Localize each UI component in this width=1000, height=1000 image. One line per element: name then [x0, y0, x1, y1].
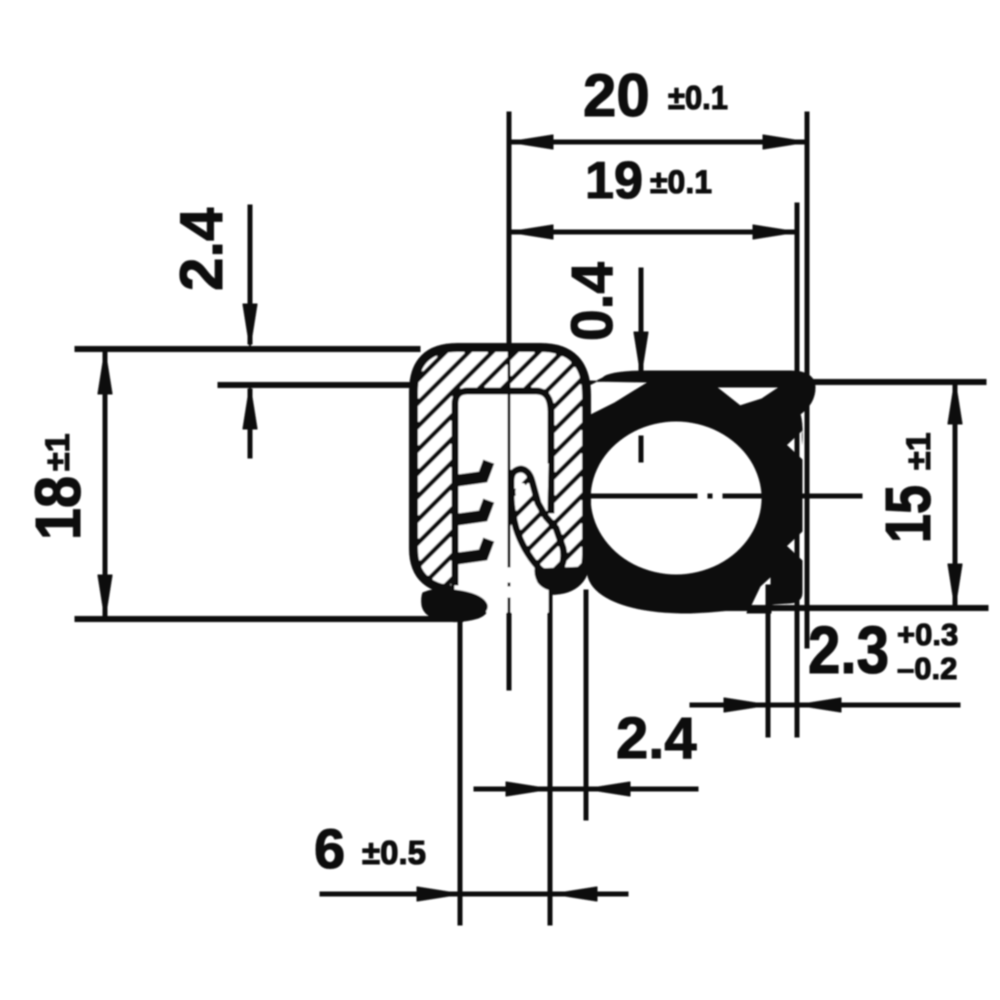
svg-text:–0.2: –0.2: [897, 651, 957, 686]
extension line x=810 (20 right): [805, 112, 809, 648]
dimension 15 ±1 (right): [872, 380, 962, 608]
svg-text:+0.3: +0.3: [897, 617, 958, 652]
dimension 20 ±0.1: [509, 62, 807, 149]
extension line x=586 (2.4 right): [584, 590, 588, 820]
svg-text:2.3: 2.3: [808, 613, 889, 688]
svg-text:2.4: 2.4: [168, 207, 235, 291]
dimension 0.4 (lip thickness): [560, 262, 648, 376]
wire right top reference line: [810, 380, 986, 385]
extension line x=460 (6 left): [458, 614, 462, 925]
clip tongue bottom tip blob: [534, 566, 584, 591]
svg-text:0.4: 0.4: [560, 262, 625, 341]
clip tongue slit white: [538, 464, 548, 507]
svg-text:20: 20: [583, 62, 650, 129]
clip tongue: [511, 469, 564, 573]
svg-text:±0.5: ±0.5: [362, 834, 426, 871]
dimension 2.4 (bottom): [474, 706, 698, 796]
clip fin 1: [454, 461, 489, 481]
dimension 19 ±0.1: [509, 152, 797, 239]
svg-text:19: 19: [585, 152, 643, 210]
extension line x=509 (20/19 left, clip centerline): [507, 112, 511, 568]
wire bottom-left reference line: [75, 617, 463, 622]
svg-text:18: 18: [22, 476, 94, 540]
wire top-left reference line (flange top): [75, 347, 420, 352]
wire seat reference line (2.4 lower): [218, 383, 420, 388]
clip profile U-carrier hatched body: [414, 348, 586, 622]
dimension 6 ±0.5 (bottom): [314, 817, 628, 901]
extension line x=798 (19 right / 2.3 right): [795, 203, 799, 737]
svg-text:±0.1: ±0.1: [650, 164, 712, 200]
extension line x=768 (2.3 left): [766, 585, 770, 737]
svg-text:±0.1: ±0.1: [668, 79, 728, 116]
svg-text:15: 15: [872, 485, 944, 543]
clip tongue cap notch white: [516, 484, 527, 501]
dimension 2.3 +0.3/-0.2: [690, 613, 960, 712]
svg-text:±1: ±1: [900, 432, 938, 470]
clip fin 2: [454, 500, 489, 520]
clip inner cavity: [455, 391, 551, 612]
centerline of bulb horizontal y=496: [585, 494, 862, 498]
svg-text:6: 6: [314, 817, 345, 880]
wire right bottom reference line: [690, 606, 988, 611]
svg-text:±1: ±1: [39, 433, 77, 471]
centerline of bulb vertical x=641: [639, 436, 643, 462]
extension line x=550 (6 right / 2.4 left): [548, 586, 552, 925]
svg-text:2.4: 2.4: [616, 706, 697, 771]
clip fin 3: [454, 539, 489, 559]
clip bottom foot blob: [422, 589, 489, 622]
clip cavity outline: [455, 391, 551, 586]
bulb seal body: [587, 371, 815, 613]
dimension 2.4 (top left): [168, 205, 257, 458]
dimension 18 ±1 (left): [22, 350, 112, 619]
